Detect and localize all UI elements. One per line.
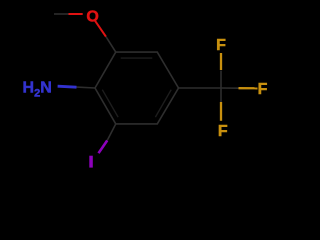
svg-text:F: F xyxy=(258,81,268,98)
svg-text:F: F xyxy=(218,123,228,140)
svg-text:F: F xyxy=(216,37,226,54)
svg-text:O: O xyxy=(86,8,98,25)
